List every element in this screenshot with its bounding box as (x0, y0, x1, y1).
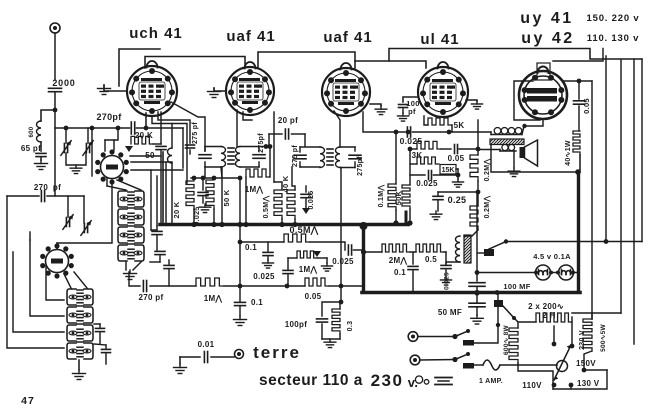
svg-text:0.5: 0.5 (425, 255, 437, 264)
svg-text:20 K: 20 K (172, 201, 181, 218)
svg-text:0.1: 0.1 (251, 298, 263, 307)
svg-text:50K: 50K (394, 190, 403, 205)
svg-text:0.05: 0.05 (305, 292, 322, 301)
svg-text:uaf 41: uaf 41 (226, 28, 275, 45)
svg-text:0.1: 0.1 (245, 243, 257, 252)
svg-text:100 MF: 100 MF (503, 282, 530, 291)
svg-text:500∿5W: 500∿5W (600, 324, 607, 352)
svg-text:230: 230 (371, 371, 404, 390)
svg-text:600: 600 (29, 126, 35, 137)
svg-text:275pf: 275pf (258, 133, 265, 153)
svg-text:5K: 5K (454, 121, 465, 130)
svg-text:47: 47 (21, 395, 35, 407)
svg-text:275 pf: 275 pf (292, 145, 299, 167)
svg-text:2M⋀: 2M⋀ (389, 256, 408, 265)
svg-text:275 pf: 275 pf (192, 122, 199, 144)
svg-text:0.5M⋀: 0.5M⋀ (262, 196, 270, 219)
svg-text:0.025: 0.025 (332, 257, 354, 266)
svg-text:4.5 v 0.1A: 4.5 v 0.1A (533, 252, 571, 261)
svg-text:65 pf: 65 pf (21, 144, 41, 153)
svg-text:uch 41: uch 41 (129, 25, 183, 42)
svg-text:0.01: 0.01 (198, 340, 215, 349)
svg-text:0.1: 0.1 (394, 268, 406, 277)
svg-text:150. 220 v: 150. 220 v (587, 13, 640, 24)
svg-text:1 AMP.: 1 AMP. (479, 378, 503, 385)
svg-text:0.1M⋀: 0.1M⋀ (377, 185, 385, 208)
svg-text:110. 130 v: 110. 130 v (587, 33, 639, 44)
svg-text:0.05: 0.05 (448, 154, 465, 163)
svg-text:40 K: 40 K (281, 175, 290, 192)
svg-text:0.2M⋀: 0.2M⋀ (483, 196, 491, 219)
svg-text:uy 41: uy 41 (520, 10, 573, 27)
svg-text:100pf: 100pf (285, 320, 307, 329)
svg-text:ul 41: ul 41 (420, 31, 459, 48)
svg-text:130 V: 130 V (577, 379, 600, 388)
svg-text:0.025: 0.025 (444, 272, 451, 290)
svg-text:150V: 150V (576, 359, 596, 368)
svg-text:1M⋀: 1M⋀ (245, 185, 264, 194)
svg-text:50 K: 50 K (222, 189, 231, 206)
svg-text:0.25: 0.25 (448, 195, 467, 205)
svg-text:pf: pf (53, 183, 61, 192)
svg-text:0.2M⋀: 0.2M⋀ (483, 159, 491, 182)
svg-text:0.025: 0.025 (416, 179, 438, 188)
svg-text:uy 42: uy 42 (521, 30, 574, 47)
svg-text:1M⋀: 1M⋀ (299, 265, 318, 274)
svg-text:270pf: 270pf (96, 112, 122, 122)
svg-text:20 pf: 20 pf (278, 116, 298, 125)
svg-text:secteur 110 a: secteur 110 a (259, 372, 363, 389)
svg-text:20 K: 20 K (135, 131, 153, 140)
svg-text:230 V: 230 V (579, 330, 586, 350)
svg-text:2000: 2000 (52, 78, 75, 88)
svg-text:0.3: 0.3 (347, 321, 354, 332)
svg-text:pf: pf (408, 107, 416, 116)
svg-text:270 pf: 270 pf (139, 293, 164, 302)
svg-text:110V: 110V (522, 381, 542, 390)
svg-text:15K: 15K (442, 167, 455, 174)
svg-text:0.05: 0.05 (582, 98, 591, 114)
svg-text:2 x 200∿: 2 x 200∿ (528, 302, 564, 311)
svg-text:0.025: 0.025 (253, 272, 275, 281)
svg-text:40∿1W: 40∿1W (565, 140, 572, 166)
svg-text:0.025: 0.025 (308, 190, 315, 209)
svg-text:0.5M⋀: 0.5M⋀ (290, 225, 319, 235)
svg-text:600∿ 8W: 600∿ 8W (503, 324, 510, 355)
svg-text:terre: terre (253, 343, 301, 362)
svg-text:1M⋀: 1M⋀ (204, 294, 223, 303)
svg-text:uaf 41: uaf 41 (323, 29, 372, 46)
svg-text:275pf: 275pf (357, 156, 364, 176)
svg-text:50 MF: 50 MF (438, 308, 462, 317)
